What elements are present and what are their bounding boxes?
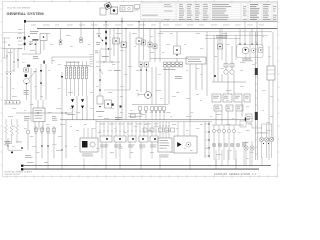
- left branch lines: [3, 38, 23, 49]
- bus stub left: [3, 31, 26, 33]
- horn H1 circles: [224, 46, 234, 74]
- lamp row 2 X-lamps: [212, 143, 246, 147]
- brake switch S2: [7, 138, 22, 153]
- ground bus wire 1: [24, 165, 271, 167]
- small text x34 y71: [34, 70, 37, 73]
- contactor aux circle: [251, 48, 256, 53]
- relay K5: [121, 42, 127, 48]
- lamp row 1: [212, 125, 235, 160]
- link y104.5: [132, 104, 168, 106]
- left bottom small text: [5, 141, 12, 144]
- B+ stud: [218, 28, 223, 49]
- right text block: [216, 36, 228, 39]
- dark dots under fuses: [140, 69, 147, 71]
- switch bank dark pads: [106, 138, 156, 140]
- switch chain x100: [99, 50, 103, 96]
- riser x160: [159, 22, 161, 62]
- rail y113 left: [16, 112, 72, 113]
- text under K7: [82, 154, 93, 157]
- ground bus lug 1: [21, 165, 23, 167]
- right drops to diode bank: [240, 22, 262, 46]
- distribution rail C: [160, 31, 272, 33]
- pump motor M4: [186, 142, 191, 147]
- L-link y113-116: [128, 114, 142, 118]
- long drops x62 x66: [62, 120, 66, 159]
- text under U5: [159, 155, 169, 158]
- left cluster small text: [29, 42, 33, 45]
- drawing border frame: [2, 2, 277, 177]
- pictogram small box: [100, 8, 106, 15]
- mini fuse row: [164, 62, 183, 67]
- bottom-left wire comb: [36, 126, 54, 159]
- link y82: [212, 35, 246, 94]
- breaker CB3: [148, 42, 152, 47]
- power diode D15: [177, 142, 181, 147]
- diode D5 on x62: [61, 72, 63, 120]
- connector row under motor: [139, 107, 166, 120]
- left column extra segments: [3, 38, 15, 63]
- wires to ground bus: [102, 142, 152, 159]
- motor M2: [138, 92, 151, 99]
- tail lamp trio: [259, 124, 273, 158]
- riser x150: [149, 28, 151, 62]
- small box left of it: [240, 121, 252, 127]
- resistor R1 zigzag: [5, 119, 19, 143]
- lamp trio label: [258, 133, 269, 145]
- gauge G1 circle: [24, 78, 30, 84]
- wires above K7: [84, 120, 96, 138]
- terminal strip TB1: [4, 101, 20, 105]
- wires under U2: [190, 32, 207, 120]
- border tick marks: [1, 0, 280, 177]
- wires under diodes: [73, 96, 88, 120]
- relay bank row1 text: [213, 96, 249, 99]
- relay bank row1: [212, 94, 250, 102]
- small boxes above horn: [224, 64, 234, 68]
- component dark dash: [43, 61, 44, 64]
- text x96 y50: [95, 51, 98, 54]
- svg-text:UNLESS NOTED: UNLESS NOTED: [5, 174, 21, 176]
- text under gauge: [24, 90, 30, 95]
- left lower verticals: [7, 76, 11, 100]
- riser x143.5: [143, 22, 145, 60]
- pictogram switch with dot: [111, 7, 118, 14]
- aux box: [259, 48, 263, 53]
- relay K1 box: [40, 34, 47, 41]
- wires from cluster: [36, 41, 44, 55]
- distribution rail E: [205, 38, 240, 40]
- link y90: [104, 89, 130, 91]
- branch y57: [52, 57, 92, 64]
- contactor enclosure box: [237, 45, 264, 58]
- fuse boxes row1: [139, 62, 149, 67]
- coil box K2: [24, 68, 29, 72]
- diode D2 dark mark: [40, 83, 42, 101]
- battery bus terminal lug: [24, 20, 26, 23]
- text under contactor: [242, 59, 253, 62]
- svg-text:GENERAL SYSTEM: GENERAL SYSTEM: [7, 11, 45, 16]
- left small parts y72-76: [5, 72, 12, 75]
- riser wires middle: [110, 22, 130, 120]
- connector row labels: [35, 132, 56, 135]
- relay bank row2: [214, 105, 243, 111]
- legend table column dividers: [176, 3, 272, 20]
- lamp L1: [26, 121, 30, 150]
- junction box right: [245, 114, 252, 122]
- legend row lines: [141, 4, 277, 19]
- dark link bar: [32, 39, 38, 40]
- fuse block FB1: [64, 61, 90, 96]
- battery positive bus wire: [26, 20, 277, 22]
- control box U5: [158, 138, 172, 152]
- converter U2: [186, 57, 206, 64]
- switch bank boxes: [100, 136, 158, 142]
- legend text smudges: [142, 14, 158, 17]
- dark tap dot: [214, 75, 216, 77]
- wires under relay bank: [216, 102, 242, 125]
- verticals mid-right: [141, 67, 169, 105]
- battery terminal block column: [24, 24, 26, 51]
- mid label text: [67, 113, 75, 116]
- ground bus lug 2: [21, 168, 23, 170]
- component chain x106: [105, 22, 107, 62]
- relay module K7: [80, 138, 98, 152]
- distribution rail D: [205, 34, 268, 36]
- link y58.5: [150, 58, 188, 60]
- wires under U1: [31, 100, 43, 130]
- diode D4: [47, 146, 49, 148]
- charger U3: [267, 32, 275, 160]
- label above ground bus: [27, 161, 48, 164]
- svg-text:tmr2016-003 GENERAL SYSTEM: tmr2016-003 GENERAL SYSTEM 1 / 1: [214, 173, 257, 176]
- comb label row: [100, 123, 105, 126]
- legend table outer frame: [141, 3, 278, 20]
- left cluster labels: [30, 31, 38, 34]
- diode D1: [40, 64, 42, 82]
- fuse F3 drop: [59, 28, 62, 44]
- link y54: [22, 53, 40, 55]
- relay K4: [113, 38, 120, 44]
- pin text column x90: [90, 54, 94, 67]
- main switched bus wire: [37, 27, 277, 29]
- svg-text:NOTE: ALL WIRES 16 AWG: NOTE: ALL WIRES 16 AWG: [5, 171, 33, 174]
- wires left-mid: [27, 64, 47, 113]
- dark sensor marks mid: [112, 104, 122, 108]
- link y49: [100, 48, 112, 49]
- small dark contacts: [61, 145, 66, 150]
- table lead stubs: [122, 18, 204, 22]
- micro label column left: [18, 29, 23, 49]
- text rows mid-right: [163, 69, 182, 79]
- diode D10: [99, 106, 101, 108]
- marker lamp pair: [244, 146, 254, 150]
- fuse block label: [66, 61, 80, 64]
- text x96 y42: [96, 42, 100, 45]
- ground bus wire 2: [24, 168, 259, 170]
- wire number labels row: [31, 24, 36, 27]
- middle small texts: [96, 56, 122, 120]
- bus junction dots: [98, 21, 139, 29]
- diode D3: [41, 146, 43, 148]
- diode pair D8 D9: [81, 99, 84, 108]
- right bottom drops to ground bus: [216, 150, 262, 166]
- pictogram connector: [135, 5, 140, 11]
- long rail y119.8: [60, 119, 250, 121]
- pin ticks above U5: [160, 125, 170, 128]
- right mid extra verticals: [222, 28, 250, 60]
- charge receptacle J1: [174, 32, 181, 62]
- relay bank row2 text: [215, 107, 240, 110]
- pictogram relay top-view: [120, 6, 133, 12]
- svg-text:GO-4 EV 2016 WIRING: GO-4 EV 2016 WIRING: [7, 8, 30, 10]
- ignition switch S3: [98, 28, 103, 41]
- accessory wire comb: [100, 122, 157, 136]
- breaker CB2: [142, 40, 146, 45]
- main contactor K6 coil circle: [242, 47, 249, 54]
- wires above U5 U6: [160, 120, 190, 138]
- ground bus junction dots: [36, 165, 251, 166]
- fuse F4 drop: [80, 22, 83, 43]
- switch bank text: [100, 145, 156, 148]
- long riser x93.5: [93, 22, 95, 120]
- breaker CB4: [153, 44, 157, 49]
- link y62: [96, 61, 120, 62]
- wires right bottom: [252, 124, 272, 128]
- diode pair D6 D7: [71, 99, 74, 108]
- connector row boxes: [34, 128, 55, 131]
- gauge pointer diagonal: [28, 71, 36, 80]
- pictogram rotated dark component: [104, 2, 112, 10]
- small text y56: [33, 56, 39, 59]
- connector blocks above U5: [143, 128, 175, 132]
- riser x155: [154, 28, 156, 62]
- text stacks under rail: [24, 116, 57, 121]
- harness ladder right: [255, 32, 258, 160]
- lamp pair leads: [242, 141, 252, 166]
- long rail y121.8: [96, 121, 212, 123]
- dark blob switch: [27, 65, 30, 67]
- contactor pin ticks: [239, 43, 257, 45]
- breaker CB1: [136, 22, 142, 62]
- module U1 box: [33, 108, 45, 122]
- harness ladder mid x205: [205, 122, 210, 158]
- link y125 right: [212, 124, 244, 126]
- legend grid sub-columns: [186, 4, 202, 20]
- scattered wire number labels: [8, 33, 271, 159]
- extra scattered labels round2: [12, 36, 273, 153]
- left bottom text stacks: [4, 142, 32, 158]
- box B1: [97, 96, 103, 104]
- dark contact block: [25, 74, 27, 77]
- drive unit U6: [174, 136, 197, 153]
- junction dots left: [8, 38, 20, 61]
- left verticals: [7, 49, 18, 72]
- wire crossings to lower ground bus: [36, 159, 237, 170]
- sensor box M1: [105, 100, 112, 108]
- extra dark dashes cluster: [28, 36, 36, 45]
